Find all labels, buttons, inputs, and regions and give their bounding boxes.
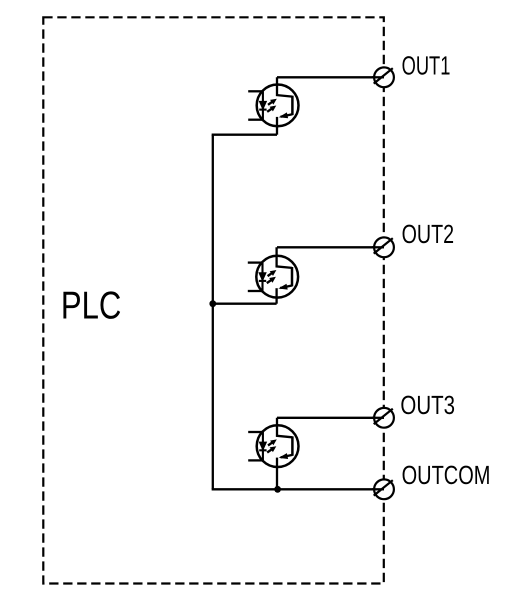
- wire: U1 emitter to bus: [212, 134, 277, 136]
- U3 body circle: [257, 425, 299, 467]
- Q2 base bar: [291, 267, 294, 286]
- U3 LED lead: [262, 432, 264, 460]
- Q2 emitter wire down: [275, 288, 277, 304]
- Q3 emitter lead with arrow: [281, 455, 293, 458]
- U2 light arrow 1: [268, 270, 277, 276]
- wire: U3 collector to OUT3 terminal: [277, 417, 384, 419]
- svg-text:OUT3: OUT3: [400, 390, 455, 420]
- terminal OUT2: [372, 237, 394, 257]
- wire: U2 collector to OUT2 terminal: [277, 246, 384, 248]
- U1 LED lead: [262, 91, 264, 119]
- U3 LED input stub (anode): [248, 431, 263, 433]
- U3 light arrow 2: [267, 446, 276, 452]
- junction: bus / U2 emitter: [209, 300, 216, 307]
- wire: bus to OUTCOM terminal: [212, 488, 384, 490]
- svg-text:OUTCOM: OUTCOM: [402, 460, 491, 490]
- wire: U2 emitter to bus: [213, 303, 277, 305]
- U1 light arrow 1: [268, 99, 277, 105]
- U3 LED triangle: [259, 442, 266, 450]
- terminal OUTCOM: [372, 479, 394, 499]
- Q3 base bar: [291, 436, 294, 455]
- Q3 emitter wire down: [276, 458, 278, 490]
- svg-text:PLC: PLC: [61, 285, 122, 328]
- Q1 collector lead: [277, 77, 292, 96]
- Q2 emitter lead with arrow: [280, 286, 292, 289]
- U1 LED input stub (anode): [248, 90, 263, 92]
- U2 LED cathode bar: [259, 280, 266, 282]
- U2 light arrow 2: [267, 277, 276, 283]
- U3 light arrow 1: [268, 439, 277, 445]
- U2 LED input stub (cathode): [248, 290, 263, 292]
- U3 LED cathode bar: [259, 449, 266, 451]
- Q2 collector lead: [277, 247, 292, 268]
- U3 LED input stub (cathode): [248, 459, 263, 461]
- wire: common emitter bus (vertical): [212, 135, 214, 490]
- U1 light arrow 2: [267, 106, 276, 112]
- terminal OUT3: [372, 408, 394, 428]
- optocoupler U1: [248, 77, 298, 134]
- Q1 base bar: [291, 96, 294, 115]
- Q1 emitter lead with arrow: [281, 114, 293, 117]
- U2 body circle: [256, 256, 298, 298]
- PLC enclosure dashed boundary: [43, 17, 384, 583]
- junction: U3 emitter / OUTCOM wire: [274, 486, 281, 493]
- U2 LED input stub (anode): [248, 261, 263, 263]
- U2 LED lead: [261, 263, 263, 291]
- U1 body circle: [257, 85, 299, 127]
- wire: U1 collector to OUT1 terminal: [277, 76, 384, 78]
- Q1 emitter wire down: [276, 117, 278, 135]
- U1 LED input stub (cathode): [248, 119, 263, 121]
- svg-text:OUT2: OUT2: [402, 219, 455, 249]
- optocoupler U3: [248, 418, 298, 490]
- terminal OUT1: [372, 67, 394, 87]
- U1 LED triangle: [259, 101, 266, 109]
- U2 LED triangle: [259, 273, 266, 281]
- Q3 collector lead: [277, 418, 292, 438]
- svg-text:OUT1: OUT1: [402, 50, 451, 80]
- optocoupler U2: [248, 247, 298, 303]
- U1 LED cathode bar: [259, 109, 266, 111]
